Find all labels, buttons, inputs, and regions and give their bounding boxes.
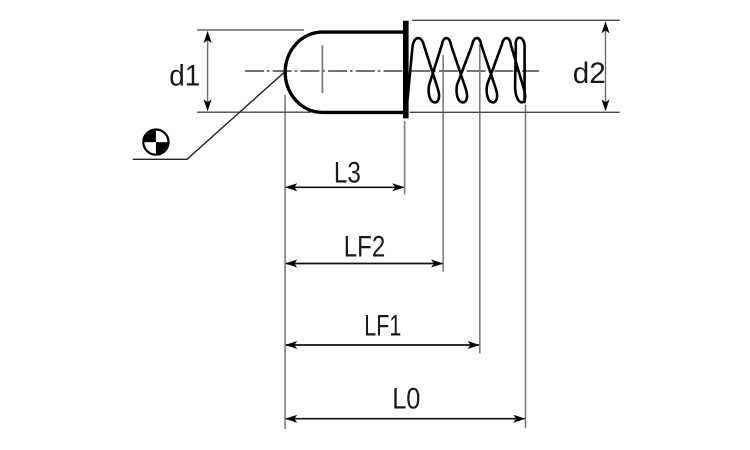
d1 dimension line — [207, 33, 209, 109]
svg-text:L0: L0 — [392, 383, 420, 416]
d1 arrow down — [204, 99, 212, 111]
extension line L3 right (x=404.5) — [404, 121, 406, 195]
LF2 arrow right — [431, 260, 443, 268]
svg-text:d2: d2 — [573, 57, 606, 90]
L3 arrow right — [392, 183, 404, 191]
L0 arrow left — [285, 415, 297, 423]
d1 extension line bottom — [197, 111, 311, 113]
extension line LF1 right (x=480) — [479, 44, 481, 354]
d1 extension line top — [197, 29, 304, 31]
flange (thick end plate) — [403, 21, 409, 119]
LF1 arrow right — [468, 341, 480, 349]
L0 arrow right — [513, 415, 525, 423]
extension line left (x=285, for L3/LF2/LF1/L0) — [284, 95, 286, 429]
d2 arrow down — [602, 99, 610, 111]
centerline (dash-dot axis) — [245, 70, 539, 72]
extension line LF2 right (x=443) — [442, 55, 444, 272]
LF1 dimension line — [286, 344, 479, 346]
svg-text:LF1: LF1 — [364, 310, 401, 343]
spring coil stroke — [407, 38, 525, 103]
L0 dimension line — [286, 418, 525, 420]
d2 extension line bottom — [410, 111, 620, 113]
LF2 dimension line — [286, 263, 442, 265]
svg-text:d1: d1 — [169, 60, 200, 93]
d2 dimension line — [605, 23, 607, 109]
L3 arrow left — [285, 183, 297, 191]
plunger body tangent mark (gray vertical) — [321, 45, 323, 93]
L3 dimension line — [286, 186, 404, 188]
datum target symbol (quartered circle) — [143, 130, 168, 155]
LF1 arrow left — [285, 341, 297, 349]
plunger body outline (dome nose + cylinder) — [285, 32, 403, 112]
leader line from datum target to plunger nose — [133, 72, 285, 159]
svg-text:L3: L3 — [334, 157, 361, 190]
extension line L0 right (x=525.5) — [525, 105, 527, 428]
LF2 arrow left — [285, 260, 297, 268]
d1 arrow up — [204, 31, 212, 43]
svg-text:LF2: LF2 — [344, 231, 386, 264]
d2 arrow up — [602, 21, 610, 33]
d2 extension line top — [412, 19, 620, 21]
